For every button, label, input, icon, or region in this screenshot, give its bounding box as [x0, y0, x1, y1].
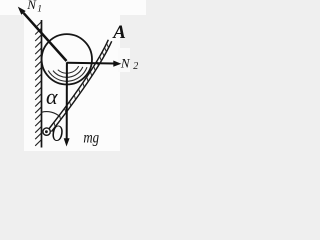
force N2 arrow shaft	[67, 62, 114, 65]
ball shading arc inner	[58, 66, 79, 73]
wall line	[41, 20, 43, 148]
rod OA line 1	[51, 41, 111, 131]
force N1 arrow shaft	[24, 13, 67, 61]
svg-text:2: 2	[133, 61, 138, 72]
ball shading arc middle	[53, 67, 83, 77]
rod hatching	[54, 44, 108, 127]
svg-text:A: A	[112, 22, 126, 43]
svg-text:N: N	[26, 0, 37, 12]
svg-text:1: 1	[37, 5, 42, 15]
ball shading arc outer	[48, 67, 87, 81]
force N2 arrowhead	[113, 61, 121, 67]
svg-text:O: O	[52, 121, 64, 147]
force mg arrowhead	[64, 138, 70, 146]
rod OA line 2	[49, 40, 109, 130]
force N1 arrowhead	[18, 7, 26, 15]
wall hatching	[35, 22, 41, 146]
ball (sphere)	[42, 34, 92, 84]
pivot O hinge pin	[45, 130, 48, 133]
force mg arrow shaft	[66, 62, 68, 138]
angle arc alpha	[41, 112, 60, 117]
svg-text:α: α	[46, 84, 58, 109]
svg-text:N: N	[120, 56, 131, 71]
svg-text:mg: mg	[83, 130, 99, 147]
pivot O hinge circle	[43, 128, 50, 135]
